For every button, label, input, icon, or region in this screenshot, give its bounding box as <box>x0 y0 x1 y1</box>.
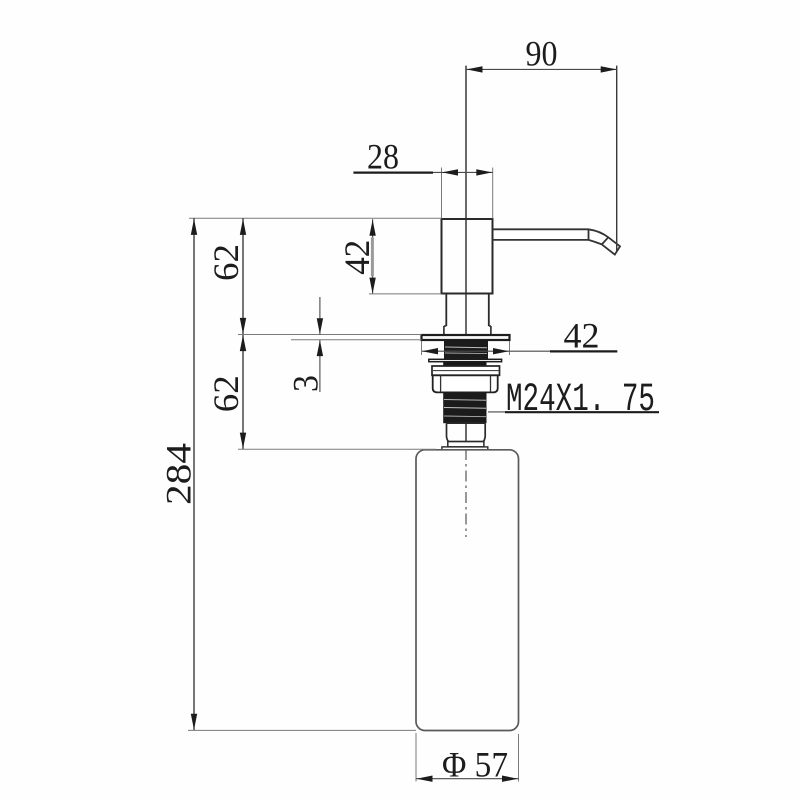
pump head <box>442 219 493 294</box>
svg-text:M24X1. 75: M24X1. 75 <box>506 378 655 423</box>
svg-text:28: 28 <box>367 137 399 177</box>
neck <box>446 294 489 327</box>
centerline <box>465 66 467 444</box>
svg-text:284: 284 <box>159 443 199 505</box>
svg-text:42: 42 <box>337 240 377 275</box>
spout <box>493 229 621 254</box>
collar under thread <box>447 423 486 441</box>
thread lower <box>443 392 486 423</box>
dim 62 bottom <box>242 335 244 450</box>
washer <box>429 359 502 361</box>
dim 28 <box>441 168 443 219</box>
nut <box>433 375 498 392</box>
extension line (flange level) <box>238 334 422 336</box>
dim 42 vertical (head height) <box>372 219 374 294</box>
dim 42 right (flange dia) <box>421 341 423 355</box>
thread upper <box>444 341 488 360</box>
locknut flange <box>432 366 500 375</box>
left extension line (head top) <box>189 217 442 219</box>
dim 3 <box>319 297 321 335</box>
dim 90 <box>616 66 618 252</box>
svg-text:42: 42 <box>564 316 600 356</box>
svg-text:90: 90 <box>526 34 558 74</box>
extension line (bottle top) <box>238 448 436 450</box>
svg-text:Φ 57: Φ 57 <box>442 745 508 785</box>
svg-text:62: 62 <box>206 375 246 412</box>
dim 284 <box>193 218 195 730</box>
neck step collar <box>444 326 491 335</box>
svg-text:62: 62 <box>206 244 246 281</box>
M24X1.75 label <box>488 411 506 413</box>
thin band <box>448 442 484 447</box>
svg-text:3: 3 <box>286 375 326 392</box>
neck ring <box>442 447 488 450</box>
flange <box>422 335 510 340</box>
dim phi57 <box>415 733 417 782</box>
dim 62 top <box>242 218 244 334</box>
centerline dash-dot in bottle <box>465 449 467 537</box>
thread collar small <box>443 362 486 366</box>
bottle <box>416 450 519 731</box>
